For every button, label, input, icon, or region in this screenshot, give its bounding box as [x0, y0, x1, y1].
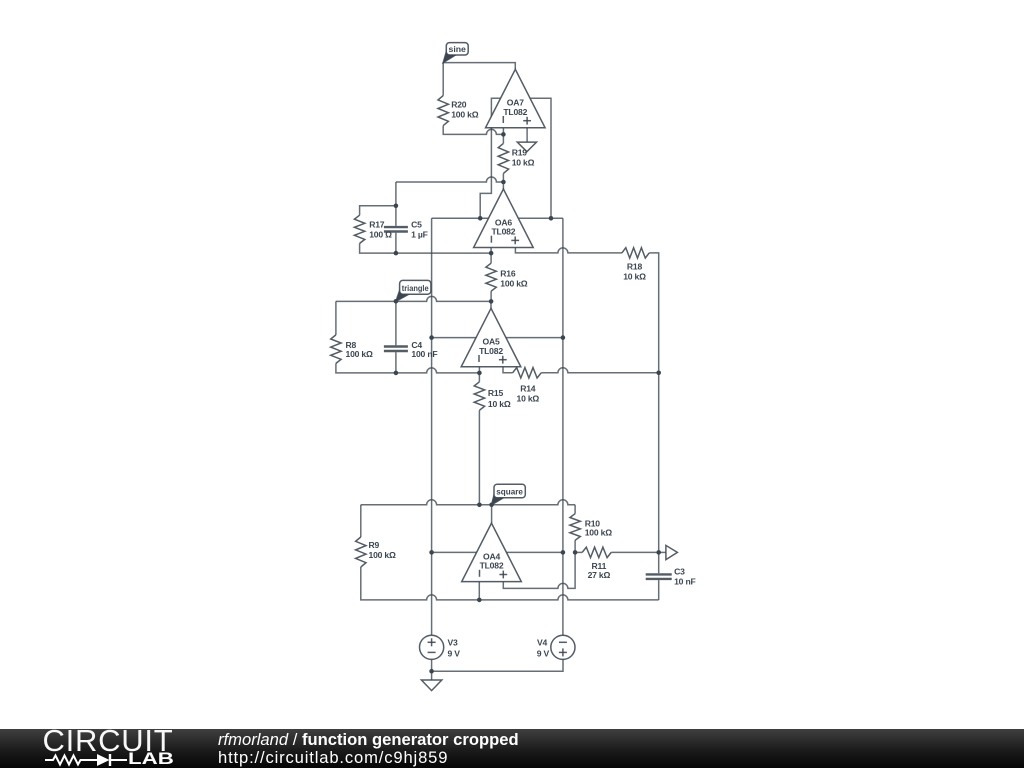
wire OA6 minus pin stub	[490, 248, 492, 254]
wire OA5 output apex stub	[490, 301, 492, 308]
CircuitLab logo resistor-diode glyph	[44, 752, 174, 768]
svg-text:R18: R18	[627, 262, 643, 272]
svg-text:100 kΩ: 100 kΩ	[585, 528, 613, 538]
capacitor C5	[384, 226, 408, 228]
node C4 bottom junction	[394, 371, 399, 376]
node OA6 inverting input junction	[489, 251, 494, 256]
wire R17 top	[360, 206, 396, 215]
wire output stub	[659, 551, 666, 553]
node OA4 inverting input junction	[477, 598, 482, 603]
wire R9 bottom / comparator input net	[361, 567, 659, 600]
op-amp OA4	[462, 523, 522, 582]
resistor R15	[474, 382, 484, 411]
wire OA6 output apex stub	[502, 182, 504, 189]
resistor R16	[486, 263, 496, 291]
svg-text:C3: C3	[674, 567, 685, 577]
node OA5 V+ rail junction	[429, 335, 434, 340]
wire sine output net	[443, 63, 515, 70]
wire OA4 plus feedback	[503, 552, 575, 588]
svg-text:TL082: TL082	[479, 346, 503, 356]
wire C3 top lead	[658, 552, 660, 573]
resistor R8	[331, 335, 341, 364]
node OA4 V- rail junction	[561, 550, 566, 555]
resistor R11	[582, 547, 611, 557]
wire R8 top lead	[335, 301, 337, 335]
svg-text:R15: R15	[488, 388, 504, 398]
svg-text:R9: R9	[369, 540, 380, 550]
node R15 / square net junction	[477, 503, 482, 508]
wire R19 leads	[502, 134, 504, 143]
resistor R17	[354, 215, 364, 243]
resistor R20	[438, 96, 448, 126]
wire OA6 V+ pin to positive rail	[432, 217, 489, 219]
wire C4 bottom lead	[395, 352, 397, 373]
svg-text:10 kΩ: 10 kΩ	[512, 158, 535, 168]
svg-text:square: square	[496, 488, 523, 497]
node OA5 inverting input junction	[477, 371, 482, 376]
node OA5 output / R16 junction	[489, 299, 494, 304]
svg-text:100 kΩ: 100 kΩ	[369, 550, 397, 560]
wire C4 top lead	[395, 301, 397, 345]
wire R15 bottom to square net	[478, 410, 480, 505]
node OA6 output / R19 junction	[501, 180, 506, 185]
node V3 ground junction	[429, 669, 434, 674]
wire R15 top lead	[478, 373, 480, 382]
node C5-R17 top junction	[394, 204, 399, 209]
svg-text:R14: R14	[520, 384, 536, 394]
svg-text:C5: C5	[411, 220, 422, 230]
svg-text:R17: R17	[369, 220, 385, 230]
svg-text:R20: R20	[451, 100, 467, 110]
wire V3 bottom to ground	[431, 659, 433, 671]
wire OA4 V- pin stub	[506, 551, 563, 553]
svg-text:100 nF: 100 nF	[411, 349, 437, 359]
node OA6 V- pin junction	[549, 216, 554, 221]
wire R14 right lead to node	[541, 368, 659, 373]
op-amp OA7	[486, 69, 546, 128]
wire C3 bottom lead	[658, 580, 660, 600]
wire OA5 V- pin stub	[506, 337, 563, 339]
positive supply rail	[431, 218, 433, 635]
node OA7 inverting input junction	[501, 132, 506, 137]
wire OA4 output apex stub	[491, 505, 493, 523]
ground symbol	[421, 680, 441, 691]
op-amp OA6	[474, 189, 534, 248]
svg-text:V4: V4	[537, 638, 548, 648]
node OA4 output flag junction	[489, 503, 494, 508]
capacitor C3	[646, 573, 672, 575]
wire OA7 plus pin to ground	[526, 128, 528, 142]
flag square	[492, 492, 504, 505]
wire R8 bottom / integrator input net	[336, 363, 480, 373]
svg-text:100 kΩ: 100 kΩ	[451, 110, 479, 120]
node OA4 V+ rail junction	[429, 550, 434, 555]
svg-text:sine: sine	[449, 45, 467, 54]
svg-text:R19: R19	[512, 148, 528, 158]
wire R20 top lead	[442, 63, 444, 96]
wire OA4 minus pin stub	[478, 582, 480, 600]
svg-text:TL082: TL082	[491, 227, 515, 237]
voltage source V4	[551, 635, 575, 659]
wire R9 top lead	[360, 505, 362, 537]
svg-text:V3: V3	[448, 638, 459, 648]
resistor R9	[356, 537, 366, 567]
CircuitLab logo wordmark	[43, 722, 174, 759]
wire OA7 V- power path	[530, 98, 551, 218]
wire OA6 V- pin to negative rail	[518, 217, 563, 219]
wire R20 bottom to OA7 inverting input	[443, 126, 503, 135]
svg-text:9 V: 9 V	[537, 648, 550, 658]
wire OA7 minus pin stub	[502, 128, 504, 135]
wire OA5 V+ pin stub	[432, 337, 477, 339]
output terminal	[666, 545, 678, 559]
flag triangle	[396, 288, 409, 301]
attribution text	[218, 730, 519, 750]
wire OA6 plus input to R18	[515, 248, 622, 253]
wire C5 branch vertical	[395, 182, 397, 226]
svg-text:100 kΩ: 100 kΩ	[500, 278, 528, 288]
wire triangle net	[336, 296, 491, 301]
wire R10 top lead	[574, 505, 576, 514]
svg-text:triangle: triangle	[402, 284, 429, 293]
svg-text:27 kΩ: 27 kΩ	[588, 570, 611, 580]
node C5-R17 bottom junction	[394, 251, 399, 256]
wire square net	[361, 500, 575, 505]
wire OA4 V+ pin stub	[432, 551, 477, 553]
ground at OA7 non-inverting input	[517, 142, 536, 152]
svg-text:TL082: TL082	[503, 107, 527, 117]
svg-text:10 kΩ: 10 kΩ	[623, 272, 646, 282]
resistor R10	[570, 514, 580, 541]
negative supply rail	[562, 218, 564, 635]
svg-text:9 V: 9 V	[448, 648, 461, 658]
node triangle net flag junction	[394, 299, 399, 304]
bottom bar	[0, 729, 1024, 768]
wire OA5 plus pin to R14	[503, 367, 513, 373]
svg-text:100 kΩ: 100 kΩ	[346, 349, 374, 359]
node OA6 V+ pin junction	[478, 216, 483, 221]
svg-text:10 nF: 10 nF	[674, 577, 695, 587]
node R10-R11 feedback junction	[573, 550, 578, 555]
voltage source V3	[420, 635, 444, 659]
svg-text:TL082: TL082	[480, 561, 504, 571]
svg-text:10 kΩ: 10 kΩ	[488, 399, 511, 409]
wire R17 bottom	[360, 243, 396, 253]
resistor R19	[498, 143, 508, 173]
capacitor C4	[384, 345, 408, 347]
node output / C3 junction	[656, 550, 661, 555]
wire R16 leads	[490, 253, 492, 263]
wire ground return to V4	[432, 659, 563, 671]
svg-text:10 kΩ: 10 kΩ	[516, 393, 539, 403]
svg-text:R16: R16	[500, 268, 516, 278]
wire OA6 output to R19 and C5 branch	[396, 177, 504, 182]
node OA5 V- rail junction	[561, 335, 566, 340]
svg-text:1 µF: 1 µF	[411, 229, 428, 239]
resistor R14	[513, 368, 542, 378]
node R14-R18 junction	[656, 371, 661, 376]
wire R18 to R14 node vertical	[649, 253, 659, 553]
op-amp OA5	[461, 308, 521, 367]
resistor R18	[622, 248, 649, 258]
flag sine	[443, 49, 456, 62]
wire R10 bottom lead	[574, 540, 576, 552]
wire OA7 V+ power path	[480, 98, 500, 218]
wire OA5 minus pin stub	[478, 367, 480, 373]
wire R11 leads	[575, 551, 582, 553]
wire C5 bottom to OA6 inverting input	[395, 233, 397, 253]
